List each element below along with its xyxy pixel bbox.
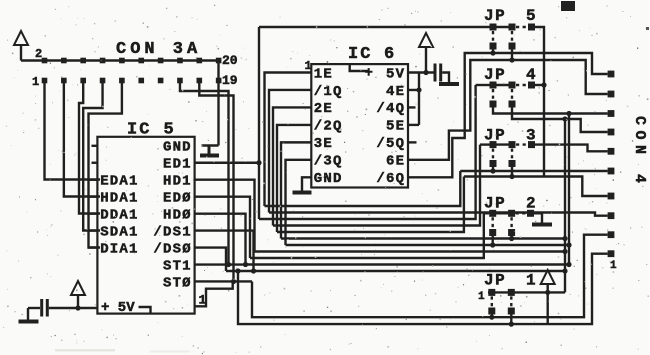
wire CON3A pin1 to EDA1: [45, 81, 101, 180]
JP4 pads top: [490, 82, 536, 89]
JP5 pads bottom: [490, 43, 516, 50]
wire JP5 net vertical (to bus row3): [258, 27, 260, 219]
wire JP3 pad3 to CON4 pin5: [535, 145, 608, 152]
IC U6 GND to ground wire: [302, 177, 311, 190]
junction pin3/5V drop: [566, 111, 571, 116]
wire HD1 to bus row8: [195, 180, 255, 252]
wire JP1 power drop vertical: [564, 119, 566, 292]
svg-text:1: 1: [526, 272, 536, 290]
CON 3A bottom row pins (1..19): [42, 78, 222, 84]
IC U5 right pin labels: [153, 140, 191, 292]
wire JP3 feed: [480, 143, 490, 145]
JP4 pads bottom: [490, 101, 516, 108]
JP3 pads bottom: [490, 160, 516, 167]
power symbol +5V (IC U6): [419, 33, 433, 73]
svg-text:STØ: STØ: [163, 275, 192, 291]
label pin 19 of CON 3A: [222, 73, 238, 88]
svg-text:/DSØ: /DSØ: [153, 241, 191, 257]
svg-text:/DS1: /DS1: [153, 224, 191, 240]
wire ground to capacitor: [28, 307, 40, 309]
bus row10 (ST1 net): [246, 263, 570, 265]
svg-text:HDA1: HDA1: [100, 190, 138, 206]
JP2 pads top: [489, 210, 534, 217]
capacitor C (IC U6): [434, 64, 443, 82]
svg-text:GND: GND: [314, 171, 343, 187]
junction JP3/pin6: [490, 168, 495, 173]
power symbol +5V (JP1): [541, 270, 555, 292]
wire JP3 pad1-pad2: [493, 143, 512, 145]
wire /DS0 to bus row11: [195, 248, 226, 271]
wire JP1 pads row: [488, 291, 565, 293]
svg-text:2E: 2E: [314, 101, 333, 117]
junction DS1/DS0 bus: [251, 268, 256, 273]
power symbol +5V (top left): [14, 31, 28, 61]
wire /3Q to bus row7: [286, 160, 312, 245]
junction JP5/pin2 net: [509, 57, 514, 62]
junction JP1//DS return: [509, 322, 514, 327]
jumper JP5 label: [484, 7, 536, 25]
IC U6 right pin labels: [376, 66, 405, 187]
IC U5 +5V pin hook: [139, 307, 151, 314]
IC U5 pin-1 label: [199, 293, 207, 308]
wire /DS1 to bus row11: [195, 231, 254, 271]
scan artifact top right: [561, 1, 575, 11]
jumper JP3 label: [484, 127, 536, 145]
wire IC U5 GND stub: [202, 144, 219, 146]
bus row7 (/3Q net): [286, 244, 570, 246]
scan smudge bottom: [55, 349, 190, 353]
label pin 1 of CON 3A: [32, 75, 39, 89]
wire JP5 pad1-pad2: [493, 26, 512, 28]
svg-text:1: 1: [32, 75, 39, 89]
wire JP1 padB to /DS return: [510, 315, 512, 325]
svg-text:IC: IC: [348, 45, 372, 64]
junction ST1 net: [566, 262, 571, 267]
wire JP4 feed: [476, 84, 490, 86]
svg-text:GND: GND: [163, 140, 192, 156]
junction JP5/pin1 net: [490, 50, 495, 55]
svg-text:JP: JP: [484, 272, 506, 290]
svg-text:DDA1: DDA1: [100, 207, 138, 223]
JP3 pads top: [490, 141, 536, 148]
bus row3 (ED1 net): [259, 85, 476, 219]
junction 3E/JP2: [509, 236, 514, 241]
junction HD0/ST1 bus: [243, 262, 248, 267]
svg-text:/5Q: /5Q: [376, 136, 405, 152]
IC U5 +5V label: [101, 300, 135, 316]
wire JP4 padB to CON4 pin4: [512, 108, 608, 133]
wire 2E to bus row4: [273, 107, 311, 225]
jumper JP4 label: [484, 66, 536, 84]
wire JP2 padA to bus row7: [492, 236, 494, 245]
wire ST1 bus row10: [195, 263, 246, 265]
wire /DS long return (to CON4 pin10): [238, 254, 608, 324]
svg-text:19: 19: [222, 73, 238, 88]
CON 4 pin-1 label: [610, 260, 617, 272]
svg-text:5: 5: [526, 7, 536, 25]
svg-text:2: 2: [35, 47, 42, 61]
ground (bottom left): [19, 308, 39, 324]
junction HD1 net: [562, 249, 567, 254]
scan artifact right edge: [646, 27, 649, 30]
wire JP4 pad1-pad2: [493, 84, 512, 86]
JP1 pads bottom: [488, 308, 515, 315]
wire bus row5 to CON4 pin7: [464, 177, 608, 197]
IC U5 left pin stubs: [88, 146, 97, 248]
svg-text:5V: 5V: [386, 66, 405, 82]
bus row8 (HD1 net): [255, 250, 566, 252]
wire 3E to bus row6: [281, 142, 311, 238]
ground (IC U6 decoupling): [439, 82, 459, 86]
connector CON 3A label: [116, 40, 201, 59]
wire IC U5 pin1 to ST0 net: [195, 282, 233, 307]
svg-text:DIA1: DIA1: [100, 241, 138, 257]
IC U6 body: [311, 64, 408, 187]
JP2 dashed links: [493, 213, 527, 229]
bus row11 (/DS net): [226, 270, 565, 272]
svg-text:1: 1: [610, 260, 617, 272]
junction +5V node: [75, 305, 80, 310]
wire ED1 to JP5: [259, 26, 490, 28]
wire 5V drop vertical: [568, 114, 570, 265]
svg-text:+: +: [365, 66, 373, 82]
wire JP5 padB to CON4 net2: [511, 50, 513, 61]
label pin 20 of CON 3A: [222, 53, 238, 68]
svg-text:1: 1: [305, 59, 312, 73]
wire 5V/4E/5E tie: [408, 73, 419, 125]
pin stub /5Q: [408, 141, 417, 143]
wire CON3A pin5 to DDA1: [79, 81, 100, 214]
wire ST0 long return (to CON4 pin9): [252, 235, 608, 318]
svg-text:1E: 1E: [314, 66, 333, 82]
capacitor C (bottom left): [40, 299, 49, 317]
junction /DS net end: [562, 268, 567, 273]
JP1 pads top: [488, 289, 515, 296]
svg-text:ST1: ST1: [163, 258, 192, 274]
svg-text:/3Q: /3Q: [314, 154, 343, 170]
junction JP1/ST0 return: [489, 315, 494, 320]
label pin 2 of CON 3A: [35, 47, 42, 61]
wire CON3A pin3 to HDA1: [64, 81, 100, 197]
wire JP2 padB to bus row6: [510, 236, 512, 239]
svg-text:6E: 6E: [386, 154, 405, 170]
junction JP5/JP4 net: [541, 82, 546, 87]
svg-text:6: 6: [384, 45, 394, 64]
ground (IC U5 GND): [200, 146, 219, 158]
svg-text:JP: JP: [484, 66, 506, 84]
svg-text:CON 3A: CON 3A: [116, 40, 201, 59]
svg-text:EDA1: EDA1: [100, 174, 138, 190]
wire bus row1 to CON4 pin6: [460, 170, 607, 172]
junction 5V/triangle: [423, 70, 428, 75]
junction 4E tie: [416, 87, 421, 92]
junction /3Q net end: [566, 242, 571, 247]
wire capacitor to ground: [442, 73, 449, 83]
ground (JP2): [532, 223, 552, 227]
svg-text:/2Q: /2Q: [314, 119, 343, 135]
junction JP3/pin8: [509, 174, 514, 179]
jumper JP2 label: [484, 195, 536, 213]
wire JP5 padA to CON4 net1: [492, 50, 494, 54]
svg-text:JP: JP: [484, 7, 506, 25]
bus row9 (ED0 net): [250, 213, 484, 258]
svg-text:1: 1: [478, 291, 485, 303]
wire JP1 padA to ST0 return: [491, 315, 493, 318]
junction pin4/JP1 drop: [562, 116, 567, 121]
wire JP3 padB to CON4 pin8: [511, 167, 513, 177]
bus row4 (2E net): [273, 145, 480, 226]
connector CON 4 label: [631, 116, 648, 189]
junction CON3A-17/ST0: [231, 279, 236, 284]
svg-text:3E: 3E: [314, 136, 333, 152]
connector CON 4 pins: [608, 71, 615, 258]
svg-text:/4Q: /4Q: [376, 101, 405, 117]
svg-text:20: 20: [222, 53, 238, 68]
wire ED0 to bus row9: [195, 197, 250, 258]
junction /DS net to outer return: [235, 268, 240, 273]
JP3 dashed links: [493, 145, 528, 160]
svg-text:HD1: HD1: [163, 174, 192, 190]
wire ST0 stub: [195, 280, 252, 282]
JP1 dashed links: [492, 296, 512, 307]
wire JP1 to /DS return: [547, 292, 549, 324]
IC U6 label: [348, 45, 394, 64]
svg-text:5E: 5E: [386, 119, 405, 135]
CON 3A top row pins (2..20): [42, 58, 222, 64]
wire HD0 to bus row10: [195, 214, 246, 265]
IC U5 body: [97, 137, 194, 314]
wire JP3 padA to CON4 pin6: [492, 167, 494, 171]
wire /2Q to bus row5: [277, 125, 311, 232]
wire capacitor to IC U5 +5V: [49, 307, 98, 309]
pin stub /4Q: [408, 106, 416, 108]
wire JP2 pad3 to ground: [534, 213, 542, 222]
wire CON3A pin15 to ST1 bus: [180, 81, 229, 265]
wire /1Q to bus row2: [269, 90, 311, 213]
wire CON 3A top rail: [21, 59, 219, 61]
jumper JP1 label: [484, 272, 536, 290]
svg-text:/1Q: /1Q: [314, 84, 343, 100]
IC U5 label: [127, 121, 174, 140]
wire IC U6 5V stub: [408, 71, 434, 73]
wire CON3A pin20 to ground: [217, 61, 219, 146]
wire CON3A pin7 to SDA1: [83, 81, 102, 231]
junction JP1/power: [545, 290, 550, 295]
svg-text:CON 4: CON 4: [631, 116, 648, 189]
svg-text:+ 5V: + 5V: [101, 300, 135, 316]
IC U5 left pin labels: [100, 174, 138, 258]
IC U6 +5V pin hook: [350, 64, 373, 81]
JP5 dashed links: [493, 27, 528, 43]
junction 3E/5V drop: [562, 236, 567, 241]
bus row1 (1E net): [265, 171, 461, 206]
wire JP5 pad3 drop: [532, 27, 545, 177]
svg-text:EDØ: EDØ: [163, 190, 192, 206]
IC U6 pin-1 label: [305, 59, 312, 73]
wire JP4 pad3 link: [535, 84, 544, 86]
wire 1E to bus row1: [265, 73, 312, 207]
JP1 pin-1 label: [478, 291, 485, 303]
svg-text:SDA1: SDA1: [100, 224, 138, 240]
wire JP4 padA to CON4 pin3: [493, 108, 608, 114]
wire /6Q to CON4 pin1: [408, 53, 608, 177]
svg-text:ED1: ED1: [163, 157, 192, 173]
junction /3Q/JP2: [490, 242, 495, 247]
JP5 pads top: [490, 24, 536, 31]
ground (IC U6): [293, 191, 312, 195]
svg-text:/6Q: /6Q: [376, 171, 405, 187]
bus row2 (/1Q net): [269, 213, 608, 216]
wire CON3A pin9 to DIA1: [89, 81, 122, 248]
wire ED1 stub: [195, 162, 259, 164]
junction CON3A-15/ST1: [226, 262, 231, 267]
wire JP2 feed: [484, 212, 489, 214]
wire JP2 pad1-pad2: [493, 212, 512, 214]
wire 6E to CON4 pin2: [408, 60, 608, 160]
svg-text:HDØ: HDØ: [163, 207, 192, 223]
junction ED1/JP5 net: [256, 160, 261, 165]
JP4 dashed links: [493, 85, 528, 101]
bus row6 (3E net): [281, 237, 565, 239]
IC U6 left pin labels: [314, 66, 343, 187]
bus row5 (/2Q net): [277, 177, 464, 233]
svg-text:4: 4: [526, 66, 536, 84]
JP2 pads bottom: [489, 229, 515, 236]
wire CON3A pin17 to ST0 bus: [199, 81, 233, 282]
power symbol +5V (bottom left): [71, 281, 85, 308]
